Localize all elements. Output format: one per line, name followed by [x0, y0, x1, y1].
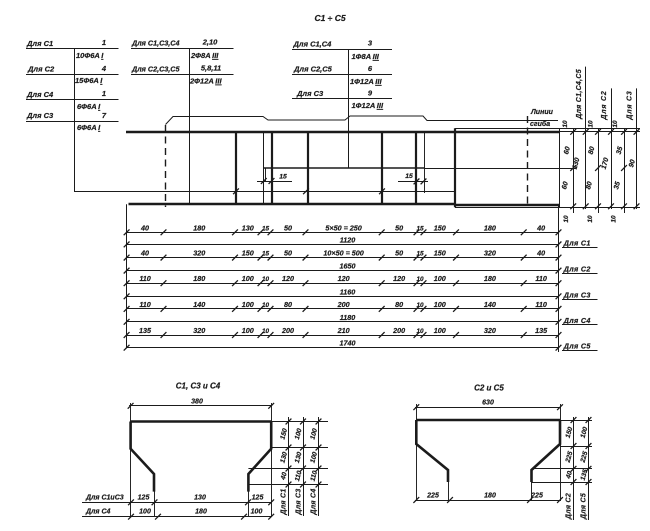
svg-text:50: 50 — [284, 223, 292, 232]
svg-text:150: 150 — [279, 428, 289, 441]
left detail dim row A — [82, 495, 274, 506]
svg-text:100: 100 — [434, 326, 446, 335]
dim row С1 segments — [124, 223, 562, 235]
mesh bottom bar right portion — [455, 204, 559, 207]
svg-text:15: 15 — [416, 251, 424, 258]
svg-text:630: 630 — [482, 400, 494, 407]
left detail extension lines — [131, 403, 329, 517]
svg-text:320: 320 — [484, 326, 496, 335]
svg-text:С2 и С5: С2 и С5 — [474, 384, 504, 393]
fold lines label — [530, 109, 554, 128]
callout block 1 shelf lines — [26, 49, 119, 122]
svg-text:1Ф12А III: 1Ф12А III — [350, 77, 382, 86]
svg-text:Для С2: Для С2 — [27, 65, 55, 74]
svg-text:125: 125 — [252, 495, 264, 502]
svg-text:10: 10 — [416, 328, 424, 335]
sheet top edge right portion — [455, 128, 640, 130]
svg-text:110: 110 — [309, 470, 319, 482]
svg-text:2Ф12А III: 2Ф12А III — [189, 77, 222, 86]
svg-text:50: 50 — [395, 249, 403, 258]
vertical chain ticks — [570, 129, 639, 209]
dim row С5 segments — [124, 326, 562, 338]
svg-text:225: 225 — [579, 450, 589, 464]
svg-text:110: 110 — [139, 274, 150, 283]
left detail dim row B — [82, 509, 274, 520]
vertical chain top labels — [576, 69, 634, 121]
svg-text:40: 40 — [140, 249, 149, 258]
dim row С4 label — [562, 316, 598, 325]
svg-text:320: 320 — [193, 249, 205, 258]
svg-text:Для С1: Для С1 — [281, 488, 288, 515]
svg-text:Для С1иС3: Для С1иС3 — [85, 495, 124, 502]
svg-text:180: 180 — [484, 274, 496, 283]
vertical chain values — [561, 120, 637, 223]
svg-text:1Ф8А III: 1Ф8А III — [352, 52, 380, 61]
svg-text:100: 100 — [580, 426, 590, 439]
svg-text:Для С1,С4,С5: Для С1,С4,С5 — [576, 69, 583, 120]
svg-text:125: 125 — [138, 495, 150, 502]
svg-text:380: 380 — [191, 398, 203, 405]
svg-text:200: 200 — [281, 326, 294, 335]
svg-text:80: 80 — [395, 300, 403, 309]
sheet right edge — [559, 128, 561, 208]
svg-text:60: 60 — [561, 181, 570, 190]
svg-text:100: 100 — [309, 428, 319, 441]
vertical dim chain lines — [574, 67, 637, 213]
right detail chains — [571, 417, 592, 520]
svg-text:140: 140 — [484, 300, 496, 309]
svg-text:Для С2,С5: Для С2,С5 — [293, 65, 333, 74]
svg-text:2,10: 2,10 — [202, 38, 218, 47]
transverse bar 6 — [415, 131, 417, 204]
svg-text:15: 15 — [262, 251, 270, 258]
svg-text:150: 150 — [242, 249, 254, 258]
svg-text:Для С5: Для С5 — [581, 493, 588, 520]
svg-text:Для С3: Для С3 — [296, 488, 303, 515]
svg-text:6Ф6А I: 6Ф6А I — [77, 123, 101, 132]
svg-text:225: 225 — [564, 450, 574, 464]
dim row С2 segments — [124, 249, 562, 261]
svg-text:Для С2: Для С2 — [566, 493, 573, 520]
svg-text:10: 10 — [562, 120, 569, 128]
svg-text:Для С3: Для С3 — [627, 90, 634, 120]
svg-text:180: 180 — [193, 274, 205, 283]
svg-text:100: 100 — [139, 509, 151, 516]
svg-text:130: 130 — [294, 451, 304, 464]
svg-text:1: 1 — [102, 89, 106, 98]
svg-text:сгиба: сгиба — [530, 120, 550, 128]
svg-text:1: 1 — [102, 38, 106, 47]
svg-text:100: 100 — [242, 274, 254, 283]
svg-text:100: 100 — [309, 451, 319, 464]
svg-text:10: 10 — [416, 302, 424, 309]
svg-text:130: 130 — [242, 223, 254, 232]
right detail extension lines — [417, 404, 593, 500]
svg-text:135: 135 — [139, 326, 152, 335]
svg-text:1160: 1160 — [340, 287, 355, 296]
bottom extension line to chains — [455, 207, 640, 209]
transverse bar 2 thin — [263, 132, 265, 205]
svg-text:10: 10 — [588, 120, 595, 128]
svg-text:Для С3: Для С3 — [26, 111, 54, 120]
left detail profile — [131, 422, 272, 492]
svg-text:60: 60 — [563, 146, 572, 155]
right detail bottom dim — [413, 493, 563, 503]
left detail chains — [286, 417, 322, 516]
dim row С5 total — [124, 339, 562, 351]
svg-text:320: 320 — [484, 249, 496, 258]
svg-text:15: 15 — [405, 173, 413, 180]
transverse bar 5 — [381, 131, 383, 204]
svg-text:10×50 = 500: 10×50 = 500 — [323, 249, 363, 258]
callout block 2 shelf lines — [131, 49, 234, 75]
callout block 3 leader — [348, 50, 350, 168]
svg-text:Для С1: Для С1 — [26, 39, 53, 48]
svg-text:40: 40 — [536, 249, 545, 258]
svg-text:С1, С3 и С4: С1, С3 и С4 — [176, 382, 221, 391]
svg-text:225: 225 — [426, 493, 439, 500]
svg-text:130: 130 — [279, 451, 289, 464]
svg-text:40: 40 — [565, 470, 574, 480]
svg-text:35: 35 — [613, 181, 622, 190]
svg-text:6Ф6А I: 6Ф6А I — [77, 102, 101, 111]
svg-text:150: 150 — [434, 249, 446, 258]
svg-text:100: 100 — [434, 300, 446, 309]
callout block 3 shelf lines — [292, 50, 392, 99]
svg-text:1Ф12А III: 1Ф12А III — [352, 101, 384, 110]
transverse bar 3 — [271, 131, 273, 204]
svg-text:1120: 1120 — [340, 235, 355, 244]
mesh bottom bar — [129, 203, 457, 206]
svg-text:180: 180 — [193, 223, 205, 232]
dim row С2 label — [562, 265, 598, 274]
svg-text:10Ф6А I: 10Ф6А I — [76, 51, 104, 60]
left detail chain labels — [281, 488, 318, 515]
svg-text:Для С2: Для С2 — [601, 90, 608, 120]
dim 15 right — [398, 173, 428, 184]
callout block 3 labels — [293, 39, 384, 111]
svg-text:180: 180 — [484, 223, 496, 232]
svg-text:2Ф8А III: 2Ф8А III — [190, 51, 219, 60]
svg-text:170: 170 — [601, 157, 611, 170]
transverse bar 1 — [235, 131, 237, 204]
svg-text:100: 100 — [294, 428, 304, 441]
svg-text:40: 40 — [140, 223, 149, 232]
svg-text:Для С2,С3,С5: Для С2,С3,С5 — [131, 65, 180, 74]
svg-text:140: 140 — [193, 300, 205, 309]
svg-text:9: 9 — [368, 89, 373, 98]
dim 15 left — [257, 174, 292, 184]
dim row С3 label — [562, 290, 598, 299]
svg-text:135: 135 — [580, 468, 590, 481]
svg-text:180: 180 — [195, 509, 207, 516]
svg-text:110: 110 — [139, 300, 150, 309]
dim row С3 segments — [124, 274, 562, 286]
top extension line to chains — [559, 131, 640, 133]
svg-text:1650: 1650 — [340, 262, 356, 271]
svg-text:320: 320 — [193, 326, 205, 335]
dim rows right extension — [558, 205, 560, 352]
dim row С1 total — [124, 235, 562, 247]
svg-text:Для С1,С4: Для С1,С4 — [293, 40, 333, 49]
svg-text:10: 10 — [416, 276, 424, 283]
fold line right (dashed) — [527, 116, 529, 205]
dim row С5 label — [562, 342, 598, 351]
svg-text:50: 50 — [284, 249, 292, 258]
svg-text:200: 200 — [392, 326, 405, 335]
svg-text:15: 15 — [262, 225, 270, 232]
dim row С4 segments — [124, 300, 562, 312]
right detail chain values — [564, 426, 589, 481]
svg-text:15Ф6А I: 15Ф6А I — [75, 76, 103, 85]
right detail dim 630 — [413, 400, 563, 411]
svg-text:Для С3: Для С3 — [296, 89, 324, 98]
svg-text:10: 10 — [262, 328, 270, 335]
dim row С4 total — [124, 313, 562, 325]
callout block 1 leader — [74, 49, 455, 195]
svg-text:120: 120 — [282, 274, 294, 283]
svg-text:210: 210 — [337, 326, 350, 335]
svg-text:Для С1: Для С1 — [563, 238, 591, 247]
svg-text:15: 15 — [279, 174, 287, 181]
svg-text:10: 10 — [563, 215, 570, 223]
callout block 2 labels — [131, 38, 222, 86]
svg-text:10: 10 — [262, 276, 270, 283]
svg-text:225: 225 — [530, 493, 543, 500]
svg-text:120: 120 — [393, 274, 405, 283]
callout block 1 labels — [26, 38, 107, 132]
svg-text:15: 15 — [416, 225, 424, 232]
mesh top bar — [126, 131, 559, 134]
svg-text:10: 10 — [612, 120, 619, 128]
svg-text:100: 100 — [434, 274, 446, 283]
svg-text:Для С3: Для С3 — [563, 290, 591, 299]
svg-text:6: 6 — [368, 64, 373, 73]
svg-text:Для С4: Для С4 — [311, 488, 318, 515]
svg-text:100: 100 — [242, 326, 254, 335]
svg-text:3: 3 — [368, 39, 373, 48]
dim rows left extension — [126, 204, 128, 348]
svg-text:100: 100 — [242, 300, 254, 309]
dim row С2 total — [124, 262, 562, 274]
svg-text:10: 10 — [587, 215, 594, 223]
transverse bar 7 (sheet step edge) — [454, 128, 456, 207]
svg-text:Для С4: Для С4 — [85, 509, 111, 516]
svg-text:1180: 1180 — [340, 313, 355, 322]
svg-text:110: 110 — [294, 470, 304, 482]
svg-text:7: 7 — [102, 111, 107, 120]
svg-text:Для С4: Для С4 — [26, 90, 54, 99]
svg-text:Для С1,С3,С4: Для С1,С3,С4 — [131, 39, 179, 48]
dim row С1 label — [562, 238, 598, 247]
svg-text:80: 80 — [585, 181, 594, 190]
svg-text:110: 110 — [535, 300, 546, 309]
right detail profile — [416, 420, 560, 482]
svg-text:Для С2: Для С2 — [563, 265, 591, 274]
svg-text:35: 35 — [616, 146, 625, 155]
svg-text:80: 80 — [588, 146, 597, 155]
left detail dim 380 — [128, 398, 274, 408]
svg-text:Линии: Линии — [530, 109, 554, 116]
right detail chain labels — [566, 493, 588, 520]
callout block 2 leader — [189, 49, 191, 204]
svg-text:150: 150 — [565, 426, 575, 439]
svg-text:5×50 = 250: 5×50 = 250 — [325, 223, 361, 232]
svg-text:10: 10 — [611, 215, 618, 223]
svg-text:135: 135 — [535, 326, 548, 335]
left detail chain values — [279, 428, 319, 483]
svg-text:80: 80 — [284, 300, 292, 309]
dim row С3 total — [124, 287, 562, 299]
svg-text:150: 150 — [434, 223, 446, 232]
svg-text:4: 4 — [101, 64, 107, 73]
svg-text:50: 50 — [395, 223, 403, 232]
svg-text:40: 40 — [280, 471, 289, 481]
svg-text:1740: 1740 — [340, 339, 356, 348]
svg-text:С1 ÷ С5: С1 ÷ С5 — [314, 13, 345, 23]
svg-text:90: 90 — [628, 159, 637, 168]
fold lines leader — [166, 116, 559, 125]
fold line left (dashed) — [165, 125, 167, 207]
transverse bar 4 — [307, 131, 309, 204]
svg-text:110: 110 — [535, 274, 546, 283]
svg-text:120: 120 — [338, 274, 350, 283]
svg-text:5,8,11: 5,8,11 — [201, 64, 221, 73]
middle bar — [264, 132, 576, 193]
svg-text:180: 180 — [484, 493, 496, 500]
svg-text:200: 200 — [337, 300, 350, 309]
svg-text:100: 100 — [251, 509, 263, 516]
svg-text:Для С4: Для С4 — [563, 316, 591, 325]
svg-text:10: 10 — [262, 302, 270, 309]
svg-text:130: 130 — [194, 495, 206, 502]
svg-text:Для С5: Для С5 — [563, 342, 592, 351]
svg-text:40: 40 — [536, 223, 545, 232]
